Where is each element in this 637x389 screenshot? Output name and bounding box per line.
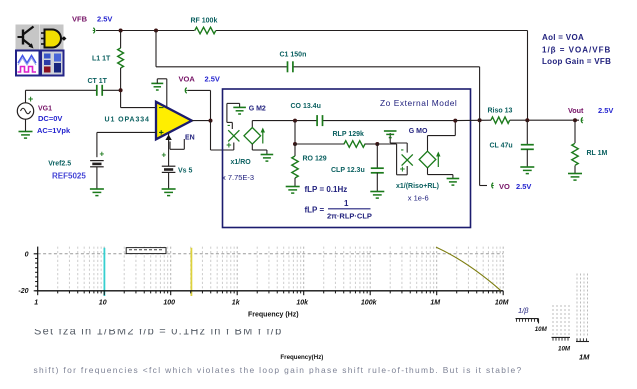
- label 10M fragment B: [558, 346, 571, 353]
- svg-text:x1/RO: x1/RO: [231, 159, 252, 166]
- label VFB 2.5V: [72, 15, 112, 24]
- svg-text:0: 0: [25, 251, 29, 258]
- ground G MO control: [384, 131, 407, 153]
- svg-text:DC=0V: DC=0V: [38, 114, 62, 123]
- svg-text:Vs 5: Vs 5: [178, 168, 193, 175]
- capacitor CO: [291, 103, 323, 126]
- label G M2: [249, 106, 266, 113]
- junction CO/RO: [293, 119, 297, 123]
- resistor Riso: [488, 108, 513, 124]
- formula fLP fraction: [305, 199, 372, 221]
- label Vout 2.5V: [568, 106, 613, 115]
- svg-text:Aol = VOA: Aol = VOA: [542, 33, 584, 42]
- wire Zo internal top: [252, 120, 455, 122]
- node VFB marker: [93, 28, 95, 34]
- svg-text:+: +: [100, 150, 105, 159]
- ground RO: [286, 187, 300, 194]
- ground VG1: [19, 132, 33, 139]
- svg-text:CO 13.4u: CO 13.4u: [291, 103, 321, 110]
- junction VFB/L1: [119, 29, 123, 33]
- svg-text:+: +: [28, 94, 33, 104]
- vccs G MO source diamond: [419, 121, 459, 186]
- ground CL: [520, 167, 534, 174]
- svg-text:2π·RLP·CLP: 2π·RLP·CLP: [327, 212, 372, 221]
- bode curve Aol: [436, 247, 501, 290]
- junction Vout node: [573, 118, 577, 122]
- label VO 2.5V: [499, 182, 531, 191]
- svg-text:RLP 129k: RLP 129k: [333, 131, 364, 138]
- svg-text:x 1e-6: x 1e-6: [408, 194, 429, 203]
- junction VFB/C1: [154, 29, 158, 33]
- junction VO tap: [478, 118, 482, 122]
- wire RO column: [294, 121, 296, 144]
- label Vs 5: [178, 168, 193, 175]
- resistor RLP: [333, 131, 366, 147]
- battery Vs 5: [162, 151, 176, 190]
- svg-text:VOA: VOA: [179, 75, 196, 84]
- svg-text:Riso 13: Riso 13: [488, 108, 513, 115]
- svg-text:10M: 10M: [558, 346, 571, 353]
- svg-text:1M: 1M: [579, 353, 590, 362]
- pin arrow V-: [165, 135, 171, 141]
- ground Vref: [90, 189, 104, 196]
- svg-text:x 7.75E-3: x 7.75E-3: [222, 173, 254, 182]
- op-amp U1 OPA334: [156, 102, 192, 140]
- svg-text:10k: 10k: [296, 300, 309, 307]
- battery Vref REF5025: [90, 150, 104, 190]
- svg-text:2.5V: 2.5V: [516, 182, 531, 191]
- svg-text:C1 150n: C1 150n: [280, 52, 307, 59]
- svg-text:shift) for frequencies <fcl wh: shift) for frequencies <fcl which violat…: [34, 365, 523, 375]
- wire C1 branch: [156, 31, 480, 67]
- label 1M fragment C: [579, 353, 590, 362]
- label x1/RO: [231, 159, 252, 166]
- bode legend box: [126, 248, 166, 254]
- label U1 OPA334: [105, 117, 150, 124]
- resistor RF: [191, 18, 218, 34]
- svg-text:Frequency(Hz): Frequency(Hz): [280, 354, 323, 361]
- svg-text:VG1: VG1: [38, 106, 52, 113]
- svg-text:RO 129: RO 129: [303, 156, 327, 163]
- label 10M fragment A: [535, 326, 548, 333]
- wire Zo box to Riso row: [455, 119, 579, 121]
- svg-text:10M: 10M: [535, 326, 548, 333]
- annotation 1/beta: [542, 46, 611, 55]
- svg-text:CT 1T: CT 1T: [88, 78, 108, 85]
- label Zo External Model: [380, 98, 457, 108]
- tiny Frequency(Hz): [280, 354, 323, 361]
- resistor RO: [292, 144, 327, 187]
- annotation Loop Gain: [542, 57, 611, 66]
- svg-text:Loop Gain = VFB: Loop Gain = VFB: [542, 57, 611, 66]
- node Vout marker: [581, 117, 583, 123]
- svg-text:100k: 100k: [361, 300, 378, 307]
- clipped text Set fza row: [34, 325, 282, 337]
- svg-text:+: +: [162, 151, 167, 160]
- wire VG1 to CT: [26, 89, 97, 91]
- wire Vref to non-inverting input: [97, 132, 156, 157]
- label Vref2.5 REF5025: [48, 160, 86, 180]
- svg-text:100: 100: [163, 300, 175, 307]
- svg-text:CLP 12.3u: CLP 12.3u: [331, 167, 365, 174]
- svg-text:+: +: [226, 140, 231, 150]
- node VO marker: [492, 183, 494, 189]
- vccs G M2 source diamond: [244, 121, 273, 162]
- svg-text:RF 100k: RF 100k: [191, 18, 218, 25]
- label VG1 DC AC: [37, 106, 71, 135]
- wire RLP node to G MO + input: [377, 144, 407, 175]
- label G MO: [409, 128, 428, 135]
- ground op-amp V+ elbow: [151, 79, 166, 108]
- vccs G MO multiplier: [400, 144, 413, 174]
- svg-text:10: 10: [99, 300, 107, 307]
- TINA logo icon: [16, 25, 67, 76]
- label x 7.75E-3: [222, 173, 254, 182]
- svg-text:-: -: [401, 144, 404, 154]
- svg-text:x1/(Riso+RL): x1/(Riso+RL): [396, 183, 439, 190]
- junction RO/RLP: [293, 142, 297, 146]
- svg-text:2.5V: 2.5V: [598, 106, 613, 115]
- ground RL: [568, 174, 582, 181]
- svg-text:1k: 1k: [232, 300, 241, 307]
- svg-text:VFB: VFB: [72, 15, 88, 24]
- bottom caption text: [34, 365, 523, 375]
- svg-text:-20: -20: [18, 288, 28, 295]
- annotation Aol: [542, 33, 584, 42]
- grid fragment B: [552, 305, 571, 341]
- svg-text:L1 1T: L1 1T: [92, 56, 111, 63]
- bode cursor line cyan: [103, 248, 105, 296]
- label EN: [185, 134, 195, 141]
- svg-text:2.5V: 2.5V: [97, 15, 112, 24]
- svg-text:Zo External Model: Zo External Model: [380, 98, 457, 108]
- svg-text:-: -: [227, 120, 230, 130]
- label 1/beta fragment: [518, 306, 529, 315]
- wire output down into Zo box: [211, 121, 234, 150]
- voltage source VG1: [17, 90, 33, 131]
- junction CT/L1: [119, 88, 123, 92]
- bode x labels: [34, 300, 508, 307]
- capacitor CL: [490, 120, 534, 167]
- junction VOA tap: [209, 119, 213, 123]
- formula fLP = 0.1Hz: [305, 185, 348, 194]
- wire CT to inverting input: [103, 90, 157, 107]
- wire Vs to op-amp V-: [168, 133, 170, 166]
- label x 1e-6: [408, 194, 429, 203]
- svg-text:1: 1: [34, 300, 38, 307]
- wire RF right drop to Vout node: [527, 31, 529, 121]
- svg-text:REF5025: REF5025: [52, 171, 86, 180]
- svg-text:Frequency (Hz): Frequency (Hz): [248, 312, 299, 319]
- svg-text:Vref2.5: Vref2.5: [48, 160, 71, 167]
- svg-text:+: +: [400, 164, 405, 174]
- junction Zo output: [453, 119, 457, 123]
- label VOA 2.5V: [179, 75, 220, 84]
- junction CL node: [525, 118, 529, 122]
- axis fragment A: [516, 319, 539, 324]
- Zo External Model box: [223, 89, 471, 228]
- ground CLP: [370, 192, 384, 199]
- ground G M2 control: [227, 103, 246, 150]
- bode plot grid: [38, 247, 504, 291]
- svg-text:G MO: G MO: [409, 128, 428, 135]
- wire VFB top row: [96, 30, 528, 32]
- bode axis title Frequency (Hz): [248, 312, 299, 319]
- wire VO tap down: [480, 67, 487, 186]
- grid fragment C: [576, 274, 589, 342]
- svg-text:1/β: 1/β: [518, 306, 529, 315]
- label x1/(Riso+RL): [396, 183, 439, 190]
- vccs G M2 multiplier: [226, 120, 239, 150]
- svg-text:10M: 10M: [495, 300, 509, 307]
- ground Vs: [162, 189, 176, 196]
- svg-text:RL 1M: RL 1M: [587, 150, 608, 157]
- pin EN: [170, 139, 184, 149]
- svg-text:1: 1: [344, 199, 349, 208]
- node VOA marker: [185, 88, 210, 121]
- svg-text:G M2: G M2: [249, 106, 266, 113]
- capacitor CLP: [331, 144, 384, 192]
- svg-text:2.5V: 2.5V: [205, 75, 220, 84]
- svg-text:1M: 1M: [430, 300, 440, 307]
- bode x axis: [38, 291, 504, 295]
- resistor RL: [572, 120, 608, 173]
- svg-text:EN: EN: [185, 134, 195, 141]
- bode y axis: [34, 247, 38, 291]
- wire RLP row: [295, 143, 377, 145]
- svg-text:CL 47u: CL 47u: [490, 143, 513, 150]
- svg-text:VO: VO: [499, 182, 510, 191]
- bode y labels: [18, 251, 28, 295]
- svg-text:Vout: Vout: [568, 106, 584, 115]
- capacitor CT: [88, 78, 108, 96]
- junction RLP/CLP: [375, 142, 379, 146]
- svg-text:AC=1Vpk: AC=1Vpk: [37, 126, 71, 135]
- svg-text:fLP = 0.1Hz: fLP = 0.1Hz: [305, 185, 348, 194]
- capacitor C1: [280, 52, 307, 73]
- inductor L1: [92, 31, 124, 91]
- wire op-amp output: [192, 120, 211, 122]
- svg-text:U1 OPA334: U1 OPA334: [105, 117, 150, 124]
- svg-text:fLP =: fLP =: [305, 206, 325, 215]
- svg-text:1/β = VOA/VFB: 1/β = VOA/VFB: [542, 46, 611, 55]
- bode cursor line yellow: [190, 248, 192, 296]
